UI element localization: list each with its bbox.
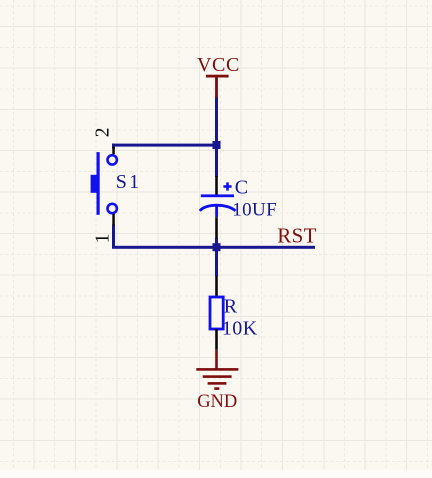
junction: top at cap/VCC node	[213, 141, 221, 149]
svg-text:GND: GND	[197, 392, 237, 412]
svg-text:RST: RST	[277, 223, 317, 247]
switch S1 pin2 circle	[108, 155, 117, 164]
svg-text:10UF: 10UF	[232, 200, 277, 221]
switch S1 contact bar	[97, 152, 100, 215]
designator C	[235, 177, 248, 199]
wire: vertical rail from VCC to cap pin	[215, 97, 218, 178]
svg-text:R: R	[224, 295, 238, 317]
wire: vertical below cap to bottom junction	[215, 238, 218, 248]
svg-text:10K: 10K	[222, 317, 258, 339]
capacitor C bottom arc plate	[200, 205, 236, 211]
pin: capacitor bottom pin (black)	[215, 217, 218, 238]
pin number 1 (rotated)	[93, 234, 114, 244]
value 10UF	[232, 200, 277, 221]
capacitor C plus sign	[223, 182, 231, 190]
power port GND bar 4	[214, 387, 219, 390]
net label RST	[277, 223, 317, 247]
designator S1	[116, 171, 142, 193]
wire: S1 pin2 stub vertical	[112, 144, 115, 149]
switch S1 pin1 circle	[108, 204, 117, 213]
resistor R body	[210, 297, 223, 329]
wire: bottom horizontal from S1 pin1 to RST end	[112, 246, 315, 249]
value 10K	[222, 317, 258, 339]
power port VCC bar	[206, 75, 229, 78]
net label GND	[197, 392, 237, 412]
svg-text:C: C	[235, 177, 248, 199]
pin: S1 pin1 stub (black)	[112, 214, 115, 226]
wire: top horizontal from S1 pin2 to junction	[112, 144, 218, 147]
capacitor C arc center tick	[215, 205, 218, 217]
power port GND bar 1	[196, 368, 238, 371]
junction: bottom at RST node	[213, 243, 221, 251]
svg-text:VCC: VCC	[197, 54, 240, 76]
pin: resistor bottom pin (black)	[215, 329, 218, 350]
wire: rail junction to resistor pin	[215, 246, 218, 276]
wire: S1 pin1 stub vertical	[112, 225, 115, 249]
switch S1 button actuator	[91, 175, 97, 193]
pin number 2 (rotated)	[93, 127, 114, 137]
capacitor C top plate	[201, 194, 234, 197]
pin: capacitor top pin (black)	[215, 176, 218, 195]
power port VCC stem	[215, 76, 218, 98]
pin: S1 pin2 stub (black)	[112, 147, 115, 154]
power port GND bar 3	[208, 382, 227, 385]
net label VCC	[197, 54, 240, 76]
designator R	[224, 295, 238, 317]
pin: resistor top pin (black)	[215, 276, 218, 297]
power port GND bar 2	[203, 375, 232, 378]
svg-text:S1: S1	[116, 171, 142, 193]
power port GND stem	[215, 350, 218, 370]
svg-text:2: 2	[93, 127, 114, 137]
svg-text:1: 1	[93, 234, 114, 244]
